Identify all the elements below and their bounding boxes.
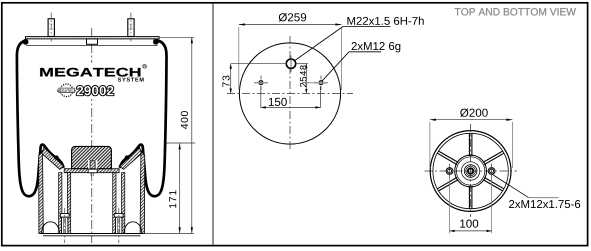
main vertical centerline — [91, 28, 93, 243]
bumper notch — [88, 160, 97, 169]
bellows outline right — [120, 41, 167, 197]
top view vertical centerline — [289, 36, 291, 150]
bumper (hatched) — [72, 146, 112, 168]
dim line 400 — [191, 37, 193, 233]
top view outer circle — [239, 43, 340, 144]
dim text 171 — [169, 190, 176, 208]
spokes — [471, 186, 473, 209]
center nut — [88, 169, 97, 173]
ext line bottom — [145, 233, 194, 235]
bellows end bead right — [125, 155, 129, 159]
bolt left — [60, 214, 69, 218]
piston sloped shoulder right — [120, 147, 142, 169]
dim 100 — [449, 176, 451, 233]
piston bottom plate — [40, 233, 143, 235]
bumper stud — [90, 161, 95, 169]
label 2xM12 6g — [322, 52, 349, 81]
bolt centerline right — [118, 208, 120, 243]
dim 150 — [260, 86, 262, 108]
dim 25 48 — [305, 64, 307, 94]
dim 73 — [231, 63, 287, 65]
piston outer wall right (hatched) — [140, 151, 145, 234]
dim text 400 — [181, 111, 188, 129]
stud right centerline — [130, 13, 132, 44]
label 2xM12x1.75-6 — [493, 175, 529, 198]
29002 part number — [77, 86, 114, 95]
bottom hole right — [488, 168, 495, 175]
bead left — [23, 39, 29, 45]
logo background — [36, 63, 148, 99]
stud left centerline — [50, 13, 52, 44]
logo (R) — [143, 64, 147, 68]
bead right — [153, 39, 159, 45]
M22 center hole — [286, 59, 295, 68]
ext line piston top (171) — [167, 142, 196, 144]
bolt right — [114, 214, 123, 218]
piston outer wall left (hatched) — [39, 151, 44, 234]
MEGATECH logo — [40, 68, 140, 77]
bottom hole left — [446, 168, 453, 175]
bottom view outer rim — [430, 131, 511, 212]
piston bolt boss right — [113, 173, 116, 234]
stud right — [128, 19, 134, 37]
piston bolt boss left — [59, 173, 62, 234]
divider line — [212, 3, 214, 245]
top view horizontal centerline — [227, 93, 353, 95]
logo SYSTEM — [118, 78, 144, 82]
bottom dome right — [124, 222, 142, 234]
bottom dome left — [42, 222, 60, 234]
title: TOP AND BOTTOM VIEW — [455, 8, 576, 15]
dim Ø200 — [429, 122, 431, 168]
round logo stamp — [60, 84, 73, 97]
bottom view vertical centerline — [470, 124, 472, 217]
hole M12 right — [319, 81, 323, 85]
bottom view horizontal centerline — [425, 170, 518, 172]
bellows end bead left — [54, 155, 58, 159]
piston top plate — [64, 169, 119, 173]
piston sloped shoulder left — [42, 147, 64, 169]
bellows seam under plate — [26, 45, 158, 47]
bolt centerline left — [64, 208, 66, 243]
hole M12 left — [259, 81, 263, 85]
stud left — [48, 19, 54, 37]
air inlet boss — [87, 39, 98, 44]
dim Ø259 — [238, 27, 240, 90]
ext line top (400) — [160, 36, 194, 38]
bellows outline left — [17, 41, 64, 197]
hub center hole — [468, 168, 473, 173]
hub rings — [455, 155, 487, 187]
top plate — [25, 37, 159, 39]
label M22x1.5 6H-7h — [295, 27, 343, 61]
dim line 171 — [179, 143, 181, 233]
